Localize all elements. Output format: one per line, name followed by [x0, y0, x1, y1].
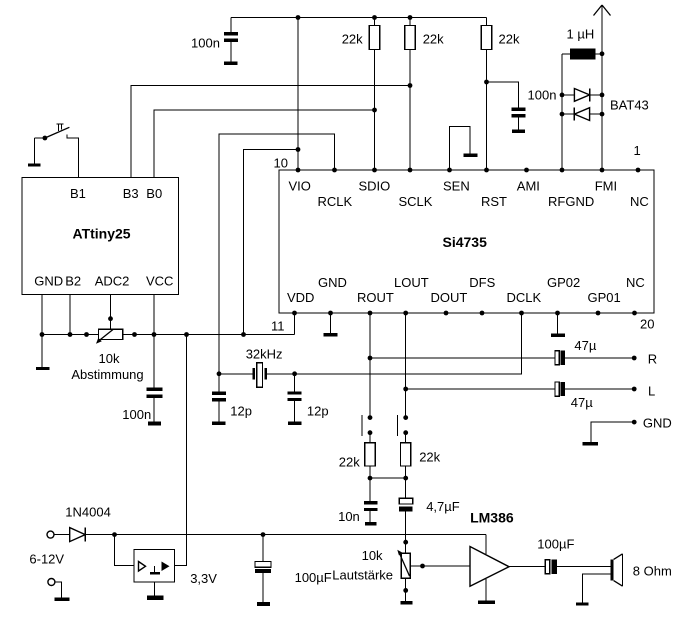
svg-text:RFGND: RFGND	[548, 194, 594, 209]
svg-text:LM386: LM386	[470, 510, 514, 526]
svg-text:6-12V: 6-12V	[29, 552, 64, 567]
svg-text:GP01: GP01	[588, 290, 621, 305]
svg-text:47µ: 47µ	[571, 395, 593, 410]
svg-text:VIO: VIO	[289, 179, 311, 194]
svg-text:RCLK: RCLK	[318, 194, 353, 209]
svg-text:SEN: SEN	[443, 179, 470, 194]
svg-text:FMI: FMI	[595, 179, 617, 194]
svg-text:22k: 22k	[342, 32, 363, 47]
svg-text:22k: 22k	[499, 32, 520, 47]
svg-text:B1: B1	[70, 186, 86, 201]
svg-text:3,3V: 3,3V	[190, 571, 217, 586]
svg-text:Abstimmung: Abstimmung	[71, 367, 143, 382]
svg-text:100µF: 100µF	[295, 570, 332, 585]
svg-text:B0: B0	[146, 186, 162, 201]
svg-text:22k: 22k	[339, 455, 360, 470]
svg-text:DCLK: DCLK	[507, 290, 542, 305]
svg-text:11: 11	[271, 319, 285, 334]
svg-text:100n: 100n	[191, 36, 220, 51]
svg-text:GP02: GP02	[547, 275, 580, 290]
svg-text:VCC: VCC	[146, 274, 173, 289]
svg-text:8 Ohm: 8 Ohm	[633, 564, 672, 579]
svg-text:VDD: VDD	[287, 290, 314, 305]
svg-text:LOUT: LOUT	[394, 275, 429, 290]
svg-text:Si4735: Si4735	[443, 234, 488, 250]
svg-text:ROUT: ROUT	[357, 290, 394, 305]
svg-text:NC: NC	[626, 275, 645, 290]
svg-text:12p: 12p	[230, 404, 252, 419]
svg-text:GND: GND	[318, 275, 347, 290]
svg-text:100n: 100n	[528, 88, 557, 103]
svg-text:12p: 12p	[307, 404, 329, 419]
svg-text:ATtiny25: ATtiny25	[73, 226, 131, 242]
svg-text:ADC2: ADC2	[95, 274, 130, 289]
svg-text:10: 10	[274, 156, 288, 171]
svg-text:10k: 10k	[99, 351, 120, 366]
svg-text:22k: 22k	[419, 450, 440, 465]
svg-text:Lautstärke: Lautstärke	[332, 568, 393, 583]
svg-text:20: 20	[640, 317, 654, 332]
svg-text:SDIO: SDIO	[359, 179, 391, 194]
svg-text:32kHz: 32kHz	[246, 347, 283, 362]
svg-text:22k: 22k	[423, 32, 444, 47]
svg-text:100µF: 100µF	[537, 537, 574, 552]
svg-text:10n: 10n	[338, 509, 360, 524]
svg-text:NC: NC	[630, 194, 649, 209]
svg-text:L: L	[648, 384, 655, 399]
svg-text:100n: 100n	[122, 407, 151, 422]
svg-text:1N4004: 1N4004	[65, 505, 111, 520]
svg-text:SCLK: SCLK	[399, 194, 433, 209]
svg-text:B2: B2	[65, 274, 81, 289]
svg-text:DFS: DFS	[469, 275, 495, 290]
svg-text:10k: 10k	[362, 548, 383, 563]
svg-text:RST: RST	[481, 194, 507, 209]
svg-text:4,7µF: 4,7µF	[426, 499, 460, 514]
svg-text:1: 1	[634, 143, 641, 158]
svg-text:AMI: AMI	[517, 179, 540, 194]
svg-text:GND: GND	[643, 416, 672, 431]
svg-text:BAT43: BAT43	[610, 98, 649, 113]
svg-text:GND: GND	[34, 274, 63, 289]
svg-text:R: R	[648, 352, 657, 367]
svg-text:DOUT: DOUT	[431, 290, 468, 305]
svg-text:B3: B3	[123, 186, 139, 201]
svg-text:47µ: 47µ	[574, 338, 596, 353]
svg-text:1 µH: 1 µH	[567, 27, 595, 42]
